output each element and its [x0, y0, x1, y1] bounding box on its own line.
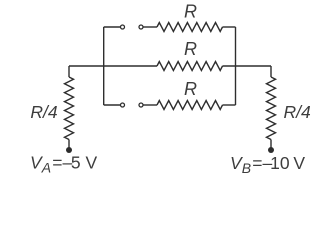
wire: left vertical bus	[103, 27, 105, 105]
svg-text:VB=–10 V: VB=–10 V	[230, 153, 305, 176]
wire: top branch right stub	[223, 26, 236, 28]
wire: middle branch right	[223, 65, 272, 67]
svg-text:R/4: R/4	[30, 102, 58, 122]
resistor R (middle)	[157, 62, 223, 71]
node B terminal dot	[268, 147, 274, 153]
wire: left R/4 top lead	[68, 66, 70, 77]
svg-text:R/4: R/4	[284, 102, 312, 122]
svg-text:R: R	[184, 2, 197, 22]
wire: middle branch left	[69, 65, 157, 67]
terminal: bottom branch right open circle	[139, 103, 143, 107]
terminal: bottom branch left open circle	[121, 103, 125, 107]
wire: right R/4 bottom lead	[270, 140, 272, 149]
wire: top branch left stub	[104, 26, 120, 28]
node A terminal dot	[66, 147, 72, 153]
wire: right vertical bus	[235, 27, 237, 105]
resistor R (top)	[157, 23, 223, 32]
svg-text:VA=–5 V: VA=–5 V	[30, 153, 97, 176]
wire: right R/4 top lead	[270, 66, 272, 77]
terminal: top branch left open circle	[121, 25, 125, 29]
wire: bottom branch right stub	[223, 104, 236, 106]
resistor R (bottom)	[157, 101, 223, 110]
wire: bottom branch between terminal and resistor	[144, 104, 158, 106]
svg-text:R: R	[184, 79, 197, 99]
resistor R/4 (right)	[267, 77, 276, 140]
wire: top branch between terminal and resistor	[144, 26, 158, 28]
svg-text:R: R	[184, 39, 197, 59]
resistor R/4 (left)	[65, 77, 74, 140]
terminal: top branch right open circle	[139, 25, 143, 29]
wire: bottom branch left stub	[104, 104, 120, 106]
wire: left R/4 bottom lead	[68, 140, 70, 149]
